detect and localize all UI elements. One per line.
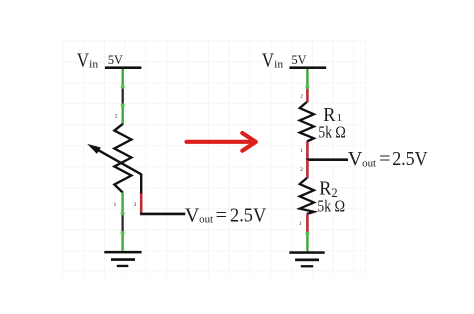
svg-text:2.5V: 2.5V (392, 148, 428, 170)
svg-text:out: out (362, 157, 376, 169)
label R1 (323, 104, 342, 126)
svg-text:Ω: Ω (335, 197, 346, 216)
red transformation arrow (187, 133, 256, 151)
label Vin (left) (77, 50, 99, 72)
wire: node to Vout label (right, black) (306, 158, 348, 161)
wire: wiper to Vout node (left), red then black (140, 194, 185, 214)
svg-text:5V: 5V (292, 53, 307, 67)
ground (left) (104, 251, 141, 267)
wire: node to R2 (red) (306, 160, 309, 179)
svg-text:=: = (379, 148, 390, 170)
wire: R1 to node (red) (306, 142, 309, 160)
potentiometer body (zigzag) (114, 124, 131, 193)
potentiometer wiper arrow (87, 144, 141, 195)
wire: R2 to ground (right), red then green (306, 214, 310, 252)
power rail bar (right) (289, 66, 326, 69)
svg-text:2: 2 (300, 94, 303, 100)
power rail bar (left) (105, 66, 141, 69)
label R2 (319, 177, 337, 199)
background grid (decorative) (63, 38, 366, 277)
svg-text:2: 2 (300, 167, 303, 173)
svg-text:1: 1 (114, 202, 117, 208)
label 5kΩ (R2) (317, 197, 345, 216)
wire: potentiometer to ground (left), green/black segments (121, 193, 125, 251)
svg-text:in: in (274, 58, 284, 70)
label Vin (right) (262, 50, 284, 72)
svg-text:2: 2 (115, 114, 118, 120)
svg-text:5V: 5V (108, 53, 123, 67)
resistor R1 (zigzag) (300, 102, 314, 142)
resistor R2 (zigzag) (300, 178, 314, 214)
svg-text:V: V (348, 148, 363, 170)
svg-text:V: V (262, 50, 275, 72)
svg-text:in: in (89, 58, 99, 70)
wire: Vin rail to R1 (right), green then red (306, 69, 310, 103)
svg-text:V: V (185, 204, 200, 226)
svg-text:5k: 5k (317, 197, 331, 216)
svg-text:=: = (216, 204, 227, 226)
ground (right) (289, 251, 324, 267)
svg-text:out: out (199, 214, 213, 226)
label Vout = 2.5V (left) (185, 204, 267, 226)
svg-text:Ω: Ω (335, 122, 346, 141)
svg-text:V: V (77, 50, 90, 72)
label Vout = 2.5V (right) (348, 148, 428, 170)
svg-text:1: 1 (299, 221, 302, 227)
label 5kΩ (R1) (318, 122, 345, 141)
svg-text:5k: 5k (318, 122, 332, 141)
svg-text:2.5V: 2.5V (230, 204, 267, 226)
svg-text:1: 1 (300, 148, 303, 154)
wire: Vin rail down to potentiometer (left), green/black segments (121, 69, 125, 125)
svg-text:3: 3 (134, 202, 137, 208)
